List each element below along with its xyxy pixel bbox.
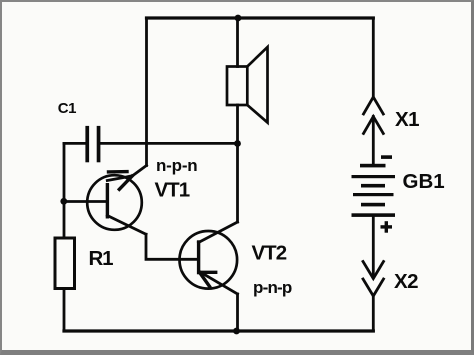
svg-text:C1: C1 [58, 100, 76, 117]
node bottom junction [233, 328, 240, 335]
wire speaker feed [236, 18, 239, 67]
wire left column lower [63, 289, 66, 332]
transistor VT1 [87, 166, 146, 235]
battery minus mark [381, 155, 392, 159]
wire left column upper [63, 143, 66, 238]
wire speaker bottom [236, 105, 239, 143]
wire VT2 collector riser [236, 144, 239, 223]
wire right column top [372, 18, 375, 97]
node top junction [235, 15, 242, 22]
node base branch [60, 198, 67, 205]
wire left drop from top rail to VT1 emitter bend [145, 18, 148, 166]
battery GB1 [352, 164, 396, 217]
svg-text:X2: X2 [394, 270, 418, 293]
svg-text:VT1: VT1 [155, 179, 190, 202]
wire bottom rail [64, 329, 373, 332]
wire battery to X2 [372, 217, 375, 278]
wire VT2 emitter drop [236, 294, 239, 331]
wire VT1 base lead [64, 200, 107, 203]
wire VT1 collector to VT2 base [146, 234, 199, 259]
wire mid rail right segment [100, 142, 237, 145]
capacitor C1 [85, 126, 100, 162]
svg-text:R1: R1 [89, 247, 114, 270]
svg-text:GB1: GB1 [403, 170, 445, 193]
wire mid rail left segment [64, 142, 85, 145]
wire top rail [147, 16, 374, 19]
resistor R1 [55, 238, 75, 289]
connector X2 [363, 262, 384, 332]
connector X1 [364, 97, 384, 165]
svg-text:X1: X1 [395, 108, 419, 131]
svg-text:VT2: VT2 [252, 241, 287, 264]
transistor VT2 [180, 222, 238, 294]
speaker [227, 47, 268, 123]
node speaker-bottom junction [234, 140, 241, 147]
svg-text:p-n-p: p-n-p [253, 278, 292, 297]
svg-text:n-p-n: n-p-n [156, 156, 197, 175]
battery plus mark [381, 221, 393, 233]
